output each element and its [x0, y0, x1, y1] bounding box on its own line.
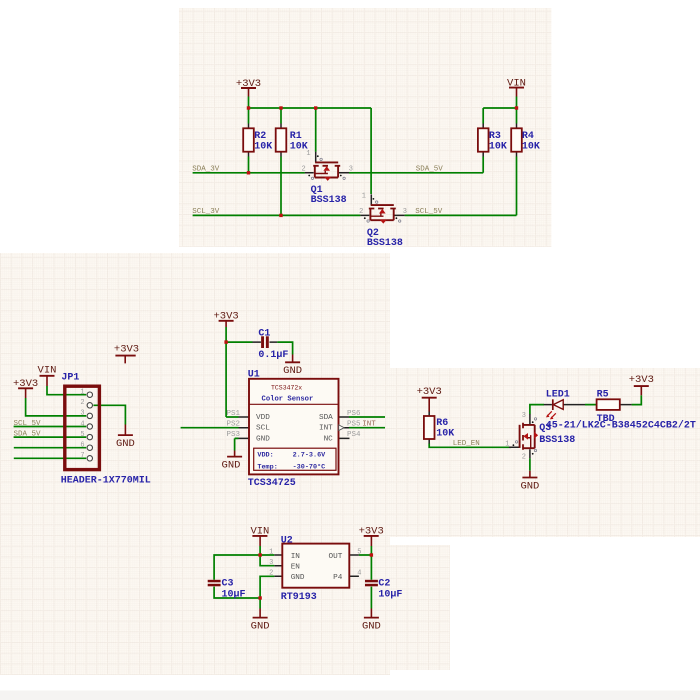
- svg-text:VIN: VIN: [250, 526, 269, 538]
- svg-text:+3V3: +3V3: [417, 386, 442, 398]
- svg-text:+3V3: +3V3: [629, 374, 654, 386]
- svg-text:5: 5: [357, 548, 361, 556]
- svg-text:SCL_3V: SCL_3V: [192, 208, 220, 216]
- svg-text:PS4: PS4: [347, 431, 361, 439]
- svg-text:+3V3: +3V3: [13, 378, 38, 390]
- svg-text:Temp:: Temp:: [257, 463, 277, 471]
- svg-text:1: 1: [306, 150, 310, 158]
- svg-text:JP1: JP1: [61, 373, 79, 384]
- svg-text:HEADER-1X770MIL: HEADER-1X770MIL: [61, 475, 151, 486]
- svg-text:P4: P4: [333, 574, 343, 582]
- svg-text:INT: INT: [362, 421, 376, 429]
- svg-text:SDA_3V: SDA_3V: [192, 166, 220, 174]
- svg-text:45-21/LK2C-B38452C4CB2/2T: 45-21/LK2C-B38452C4CB2/2T: [546, 420, 696, 432]
- svg-text:+3V3: +3V3: [114, 343, 139, 355]
- svg-text:GND: GND: [222, 459, 241, 471]
- svg-text:BSS138: BSS138: [311, 195, 347, 206]
- svg-text:2: 2: [359, 208, 363, 216]
- svg-text:10K: 10K: [522, 141, 540, 152]
- svg-text:1: 1: [269, 548, 273, 556]
- svg-text:GND: GND: [116, 438, 135, 450]
- svg-text:INT: INT: [319, 425, 333, 433]
- svg-text:3: 3: [522, 412, 526, 420]
- svg-text:RT9193: RT9193: [281, 592, 317, 603]
- svg-text:4: 4: [80, 420, 84, 428]
- svg-text:10µF: 10µF: [222, 589, 246, 600]
- svg-text:+3V3: +3V3: [213, 311, 238, 323]
- svg-text:1: 1: [80, 389, 84, 397]
- svg-text:2: 2: [522, 454, 526, 462]
- svg-text:PS5: PS5: [347, 421, 361, 429]
- svg-text:NC: NC: [324, 435, 334, 443]
- svg-text:U1: U1: [248, 369, 260, 380]
- svg-text:PS3: PS3: [226, 431, 240, 439]
- svg-text:10K: 10K: [489, 141, 507, 152]
- svg-text:7: 7: [80, 452, 84, 460]
- svg-text:GND: GND: [251, 620, 270, 632]
- svg-text:3: 3: [349, 165, 353, 173]
- svg-text:LED_EN: LED_EN: [453, 440, 480, 448]
- svg-text:SDA: SDA: [319, 414, 333, 422]
- svg-text:GND: GND: [256, 435, 270, 443]
- svg-text:GND: GND: [520, 480, 539, 492]
- svg-text:PS1: PS1: [226, 410, 240, 418]
- svg-text:5: 5: [80, 431, 84, 439]
- svg-text:10K: 10K: [254, 141, 272, 152]
- svg-text:C2: C2: [378, 579, 390, 590]
- svg-text:-30-70°C: -30-70°C: [293, 462, 326, 471]
- svg-text:BSS138: BSS138: [367, 238, 403, 249]
- svg-text:4: 4: [357, 570, 361, 578]
- svg-text:3: 3: [80, 410, 84, 418]
- svg-text:OUT: OUT: [329, 553, 343, 561]
- svg-text:1: 1: [505, 441, 509, 449]
- svg-text:SCL_5V: SCL_5V: [415, 208, 443, 216]
- svg-text:EN: EN: [291, 564, 300, 572]
- svg-text:SDA_5V: SDA_5V: [416, 166, 444, 174]
- svg-text:SCL: SCL: [256, 425, 270, 433]
- svg-text:LED1: LED1: [546, 389, 570, 400]
- svg-text:TCS34725: TCS34725: [248, 478, 296, 489]
- svg-text:R5: R5: [597, 389, 609, 400]
- svg-text:10K: 10K: [436, 428, 454, 439]
- svg-text:2: 2: [80, 399, 84, 407]
- svg-text:Color Sensor: Color Sensor: [262, 396, 314, 404]
- svg-text:U2: U2: [281, 536, 293, 547]
- svg-text:IN: IN: [291, 553, 300, 561]
- svg-text:VDD: VDD: [256, 414, 270, 422]
- svg-text:SDA_5V: SDA_5V: [14, 431, 42, 439]
- svg-text:0.1µF: 0.1µF: [258, 350, 288, 361]
- svg-text:C3: C3: [222, 579, 234, 590]
- svg-text:GND: GND: [283, 365, 302, 377]
- svg-text:3: 3: [403, 208, 407, 216]
- svg-text:SCL_5V: SCL_5V: [14, 420, 42, 428]
- svg-text:+3V3: +3V3: [236, 78, 261, 90]
- svg-text:PS6: PS6: [347, 410, 361, 418]
- svg-text:BSS138: BSS138: [539, 435, 575, 446]
- svg-text:TCS3472x: TCS3472x: [271, 385, 302, 392]
- svg-text:VIN: VIN: [507, 77, 526, 89]
- svg-text:GND: GND: [291, 574, 305, 582]
- svg-text:10K: 10K: [290, 141, 308, 152]
- svg-text:6: 6: [80, 442, 84, 450]
- svg-text:2: 2: [301, 165, 305, 173]
- svg-text:PS2: PS2: [226, 421, 240, 429]
- svg-text:VIN: VIN: [38, 364, 57, 376]
- svg-text:GND: GND: [362, 620, 381, 632]
- svg-text:C1: C1: [258, 328, 270, 339]
- svg-text:VDD:: VDD:: [257, 452, 273, 460]
- svg-text:1: 1: [362, 193, 366, 201]
- svg-text:+3V3: +3V3: [359, 526, 384, 538]
- svg-text:2: 2: [269, 570, 273, 578]
- svg-text:3: 3: [269, 559, 273, 567]
- svg-text:2.7-3.6V: 2.7-3.6V: [293, 452, 327, 460]
- svg-text:10µF: 10µF: [378, 589, 402, 600]
